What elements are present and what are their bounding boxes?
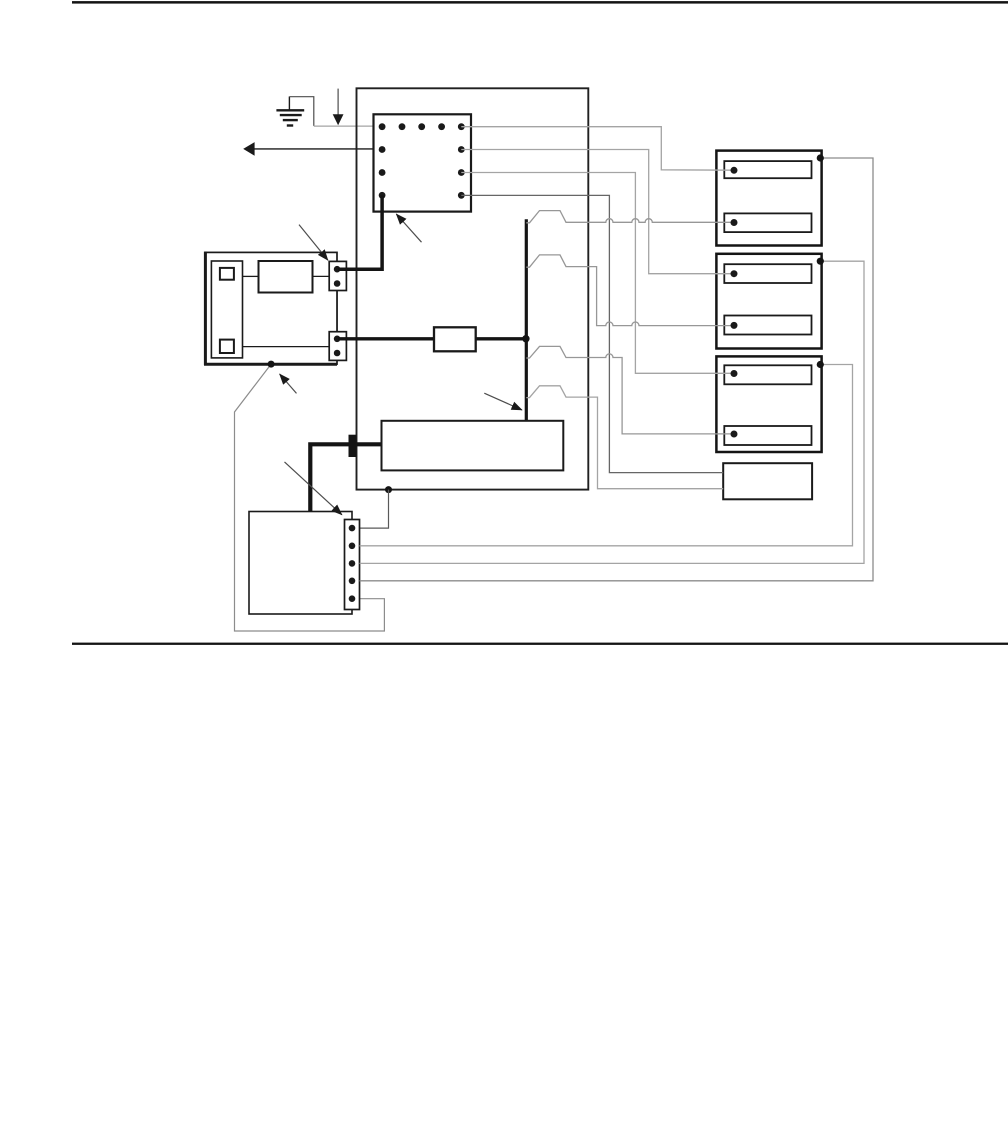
box R2 cell 2 [724, 316, 811, 335]
J1 pins top row [379, 123, 465, 130]
harness branch wire 2 [526, 255, 734, 326]
wire row1 J1 to box R1 [461, 127, 734, 171]
left module left edge (thick) [204, 252, 207, 365]
box R2 corner node [817, 258, 824, 265]
box R3 cell 2 [724, 426, 811, 445]
connector P2 [329, 332, 346, 361]
box R1 cell 1 [724, 161, 811, 178]
left module small square bottom [220, 340, 234, 353]
box R3 cell 1 [724, 365, 811, 384]
wire row3 J1 to box R3 [461, 173, 734, 374]
wire ground lead [289, 97, 313, 126]
connector P1 pins [334, 266, 341, 287]
arrow (down, into ground wire) [333, 89, 344, 126]
callout arrow to harness trunk [484, 393, 522, 410]
callout arrow to strip [285, 462, 342, 515]
harness branch wire 1 [526, 211, 734, 223]
relay box (wide) [382, 421, 564, 471]
left module inner tall rect [211, 261, 242, 358]
box R2 cell 1 [724, 264, 811, 283]
wire mid rect to connector P1 [313, 275, 330, 277]
box R1 cell 1 pin [731, 167, 738, 174]
callout arrow to P1 [299, 225, 328, 261]
wire enclosure to strip pin1 [360, 490, 389, 528]
inline device box on P2 wire [434, 327, 476, 351]
thick wire P1 to J1 [338, 195, 382, 269]
wire strip pin3 to box R2 top [360, 261, 865, 563]
box R3 corner node [817, 361, 824, 368]
box R3 cell 1 pin [731, 370, 738, 377]
box R1 corner node [817, 154, 824, 161]
box R2 cell 2 pin [731, 322, 738, 329]
bottom module box [249, 512, 352, 615]
junction dot on enclosure bottom [385, 486, 392, 493]
wire tall rect to mid rect [243, 275, 259, 277]
wire row4 J1 to box R4 [461, 195, 723, 472]
connector J1 [374, 114, 472, 211]
top rule [72, 1, 1008, 4]
left module outer box [205, 252, 337, 364]
J1 pins right column [458, 146, 465, 199]
wire row2 J1 to box R2 [461, 150, 734, 274]
J1 pins left column [379, 146, 386, 199]
left module mid rect [259, 261, 313, 293]
left module bottom junction dot [268, 361, 275, 368]
box R1 [716, 151, 821, 246]
wire ground to connector J1 [314, 125, 382, 127]
connector P2 pins [334, 336, 341, 357]
ground [276, 97, 304, 126]
callout arrow to left module dot [280, 374, 297, 393]
wire strip pin5 to left module dot [235, 364, 385, 631]
strip pins [349, 525, 356, 602]
thick wire P2 to harness junction [338, 337, 526, 340]
box R4 [723, 463, 812, 499]
arrow (left, external wire) [243, 142, 382, 156]
thick wire to bottom module [310, 444, 381, 511]
connector P1 [329, 261, 346, 290]
left module bottom edge (thick) [204, 363, 337, 366]
connector strip [345, 520, 360, 610]
box R2 [716, 254, 821, 349]
box R3 cell 2 pin [731, 431, 738, 438]
box R1 cell 2 pin [731, 219, 738, 226]
wire strip pin2 to box R3 top [360, 365, 853, 546]
box R1 cell 2 [724, 213, 811, 232]
wire tall rect to connector P2 [243, 346, 330, 348]
harness junction dot [522, 335, 529, 342]
harness branch wire 3 [526, 346, 734, 434]
wire strip pin4 to box R1 top [360, 158, 874, 581]
bottom rule [72, 643, 1008, 645]
harness branch wire 4 [526, 386, 723, 489]
wire link P1 to P2 [336, 291, 338, 332]
enclosure outer box [357, 88, 589, 489]
box R2 cell 1 pin [731, 270, 738, 277]
left module small square top [220, 268, 234, 280]
callout arrow to J1 [396, 214, 421, 242]
harness trunk line [525, 219, 528, 421]
box R3 [716, 356, 821, 452]
crossover block [349, 435, 357, 457]
